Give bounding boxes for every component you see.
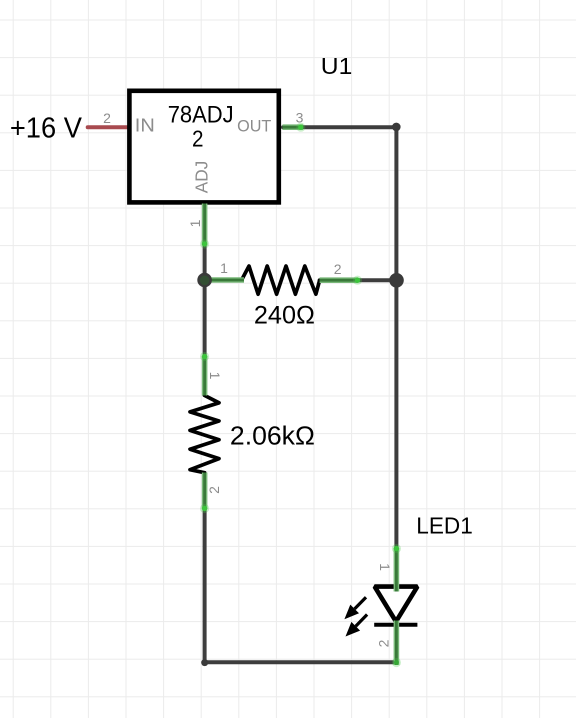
svg-text:2: 2 [376,639,392,647]
svg-text:3: 3 [296,109,304,125]
svg-text:2: 2 [103,110,111,126]
svg-text:2.06kΩ: 2.06kΩ [230,423,315,451]
svg-text:2: 2 [334,261,342,277]
svg-text:1: 1 [220,260,228,276]
svg-text:ADJ: ADJ [191,161,211,193]
svg-text:LED1: LED1 [416,513,473,539]
svg-text:1: 1 [377,563,393,571]
svg-text:1: 1 [187,219,203,227]
svg-text:240Ω: 240Ω [254,301,315,329]
svg-text:2: 2 [192,126,204,152]
svg-text:IN: IN [135,116,155,136]
svg-text:78ADJ: 78ADJ [168,101,234,128]
svg-text:U1: U1 [321,53,353,79]
svg-text:1: 1 [207,372,223,380]
svg-text:+16 V: +16 V [10,112,83,144]
svg-text:2: 2 [206,486,222,494]
svg-text:OUT: OUT [237,117,271,136]
